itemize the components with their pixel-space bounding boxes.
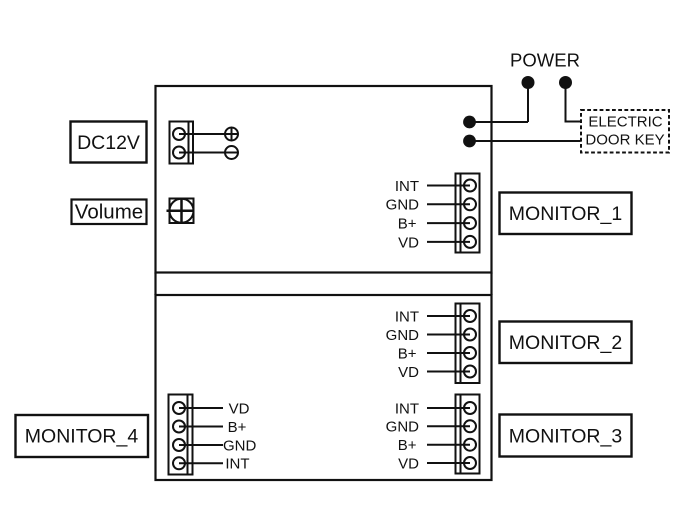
wire DC12V pin2 to minus (179, 152, 238, 154)
wire power right down to door key (566, 83, 581, 122)
svg-text:INT: INT (225, 456, 249, 473)
label box MONITOR_4 (16, 415, 149, 457)
monitor 4 terminal block J5 (169, 395, 193, 475)
power terminal dot right (559, 76, 572, 89)
svg-text:B+: B+ (398, 216, 417, 233)
svg-text:GND: GND (223, 437, 257, 454)
svg-text:B+: B+ (398, 345, 417, 362)
svg-text:MONITOR_3: MONITOR_3 (509, 426, 622, 448)
wire VD 2 (427, 371, 470, 373)
wire GND 2 (427, 334, 470, 336)
junction dot power (463, 116, 476, 129)
junction dot door key (463, 135, 476, 148)
monitor 1 pin circles (464, 180, 476, 248)
wire B+ 1 (427, 222, 470, 224)
wire power left down (527, 83, 529, 123)
svg-text:B+: B+ (228, 419, 247, 436)
wire DC12V pin1 to plus (179, 133, 238, 135)
svg-text:B+: B+ (398, 437, 417, 454)
svg-text:ELECTRIC: ELECTRIC (588, 114, 662, 131)
minus terminal symbol (225, 146, 238, 159)
svg-text:MONITOR_1: MONITOR_1 (509, 203, 622, 225)
wire GND 3 (427, 425, 470, 427)
svg-text:INT: INT (395, 308, 419, 325)
svg-text:GND: GND (386, 419, 420, 436)
main unit bottom box (156, 295, 492, 480)
wire B+ 4 (179, 426, 223, 428)
label box DC12V (71, 122, 147, 163)
label box MONITOR_1 (500, 193, 632, 235)
DC12V pin 2 (173, 147, 185, 159)
main unit top box (156, 86, 492, 273)
DC12V terminal block J1 (170, 122, 194, 164)
svg-text:GND: GND (386, 327, 420, 344)
label box Volume (72, 200, 147, 225)
wire GND 4 (179, 444, 223, 446)
wire from junction to door key (470, 140, 581, 142)
wire GND 1 (427, 203, 470, 205)
monitor 3 terminal block J4 (456, 395, 480, 474)
right chassis wire between boxes (490, 273, 492, 296)
svg-text:Volume: Volume (75, 201, 143, 224)
wire INT 4 (179, 462, 223, 464)
svg-text:GND: GND (386, 197, 420, 214)
wire INT 1 (427, 185, 470, 187)
svg-text:DC12V: DC12V (77, 132, 140, 154)
monitor 4 pin circles (173, 402, 185, 469)
power terminal dot left (522, 76, 535, 89)
volume potentiometer (167, 199, 194, 224)
svg-text:VD: VD (398, 455, 419, 472)
monitor 2 pin circles (464, 310, 476, 378)
wire VD 1 (427, 241, 470, 243)
svg-text:VD: VD (398, 364, 419, 381)
svg-text:VD: VD (398, 234, 419, 251)
wire VD 4 (179, 407, 223, 409)
wire VD 3 (427, 462, 470, 464)
label box MONITOR_2 (500, 322, 632, 364)
wire INT 2 (427, 315, 470, 317)
svg-text:INT: INT (395, 400, 419, 417)
monitor 1 terminal block J2 (456, 174, 480, 253)
svg-text:POWER: POWER (510, 50, 580, 71)
wire B+ 3 (427, 444, 470, 446)
wire from junction to power left (470, 121, 529, 123)
svg-text:VD: VD (229, 400, 250, 417)
left chassis wire between boxes (154, 273, 156, 296)
svg-text:MONITOR_2: MONITOR_2 (509, 332, 622, 354)
monitor 2 terminal block J3 (456, 304, 480, 384)
electric door key dashed box (581, 110, 669, 153)
wire B+ 2 (427, 352, 470, 354)
svg-text:MONITOR_4: MONITOR_4 (25, 426, 139, 448)
label box MONITOR_3 (500, 415, 632, 457)
svg-text:INT: INT (395, 178, 419, 195)
DC12V pin 1 (173, 128, 185, 140)
monitor 3 pin circles (464, 402, 476, 469)
plus terminal symbol (225, 128, 238, 141)
wire INT 3 (427, 407, 470, 409)
svg-text:DOOR KEY: DOOR KEY (585, 132, 664, 149)
